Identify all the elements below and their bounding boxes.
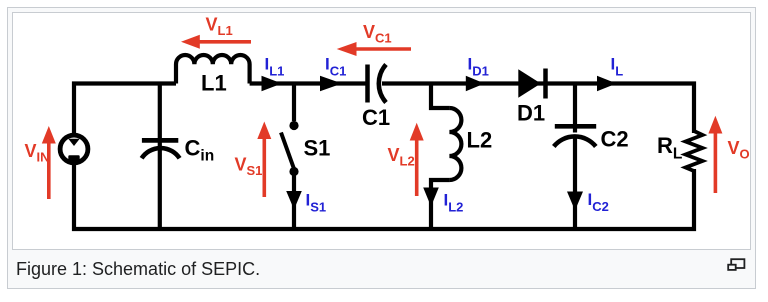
image box: [12, 12, 751, 250]
svg-text:VC1: VC1: [363, 22, 392, 46]
wire Cin bottom: [158, 150, 162, 229]
svg-text:C1: C1: [362, 105, 390, 130]
svg-text:L2: L2: [467, 128, 493, 153]
svg-text:VS1: VS1: [235, 154, 263, 178]
wire C2 branch bottom: [573, 139, 577, 230]
svg-text:IL2: IL2: [444, 191, 464, 215]
capacitor C1 curved plate: [379, 65, 386, 103]
capacitor Cin curved plate: [142, 148, 180, 158]
svg-text:IC2: IC2: [588, 190, 609, 214]
current arrow IL2: [423, 188, 439, 207]
voltage arrow VO: [714, 133, 718, 193]
node dot switch top contact: [289, 121, 298, 130]
node dot switch bottom contact: [289, 167, 298, 176]
wire C2 branch top: [573, 84, 577, 133]
svg-text:VO: VO: [728, 138, 750, 162]
svg-text:VIN: VIN: [25, 141, 50, 165]
voltage arrow VS1: [262, 139, 266, 197]
svg-text:ID1: ID1: [468, 55, 489, 79]
current arrow IL: [597, 76, 617, 91]
current arrow IS1: [286, 191, 302, 210]
wire L2 branch bottom: [431, 180, 449, 229]
svg-text:VL1: VL1: [206, 15, 233, 39]
svg-text:VL2: VL2: [388, 145, 415, 169]
svg-text:IL: IL: [611, 55, 624, 79]
magnify icon: [726, 256, 748, 273]
inductor L2: [449, 108, 461, 180]
current arrow IC1: [320, 76, 342, 91]
wire Cin top: [158, 84, 162, 147]
current arrow IC2: [567, 192, 583, 211]
capacitor C2 curved plate: [554, 136, 596, 146]
svg-text:S1: S1: [304, 136, 331, 161]
current arrow ID1: [466, 76, 485, 91]
diode D1 cathode bar: [543, 69, 548, 99]
wire left rail top + top rail to L1: [74, 84, 176, 138]
svg-text:IS1: IS1: [306, 191, 327, 215]
svg-text:Cin: Cin: [185, 136, 215, 165]
capacitor Cin plate: [142, 138, 178, 143]
svg-text:L1: L1: [201, 71, 227, 96]
svg-text:C2: C2: [601, 127, 629, 152]
wire S1 branch bottom: [292, 172, 296, 229]
wire top rail between L1 and C1: [250, 81, 366, 85]
svg-text:IC1: IC1: [325, 55, 346, 79]
voltage arrow VIN: [47, 142, 51, 199]
capacitor C1 plate: [365, 65, 370, 103]
svg-text:D1: D1: [517, 100, 545, 125]
wire top rail from C1 to right corner: [382, 84, 694, 134]
voltage source VIN inner bar: [68, 155, 79, 161]
voltage arrow VC1: [354, 47, 411, 51]
voltage arrow VL2: [415, 140, 419, 196]
caption: [16, 259, 260, 280]
switch S1 blade: [281, 133, 295, 171]
resistor RL: [686, 131, 703, 171]
diode D1 triangle: [518, 69, 541, 98]
svg-text:IL1: IL1: [265, 55, 285, 79]
wire left rail below source to bottom rail to right rail bottom: [74, 161, 694, 229]
wire L2 branch top: [431, 84, 449, 109]
voltage source VIN inner arrow: [68, 139, 79, 146]
voltage source VIN circle: [60, 135, 88, 163]
voltage arrow VL1: [198, 40, 251, 44]
wire S1 branch top: [292, 84, 296, 122]
inductor L1: [176, 55, 250, 84]
svg-text:RL: RL: [657, 133, 682, 163]
capacitor C2 plate: [555, 124, 596, 129]
current arrow IL1: [262, 76, 282, 91]
